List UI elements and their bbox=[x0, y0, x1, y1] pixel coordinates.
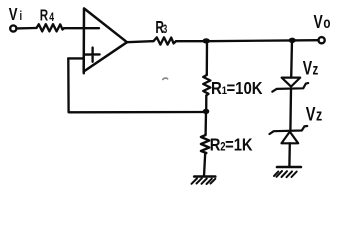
svg-text:R: R bbox=[40, 7, 48, 24]
resistor R3 bbox=[152, 37, 176, 44]
label Vz (D1) bbox=[303, 57, 318, 79]
wire op-amp output to R3 bbox=[127, 41, 152, 42]
op-amp U1 bbox=[84, 8, 127, 73]
svg-text:V: V bbox=[9, 5, 18, 24]
zener D2 (cathode bar top, anode bottom) bbox=[270, 126, 308, 143]
label R4 bbox=[40, 7, 55, 25]
label R3 bbox=[155, 18, 167, 38]
svg-text:4: 4 bbox=[49, 12, 54, 24]
wire node C to R2 bbox=[204, 112, 207, 134]
node A junction dot bbox=[203, 38, 210, 43]
terminal Vo bbox=[319, 37, 325, 43]
svg-text:z: z bbox=[312, 60, 318, 78]
resistor R4 bbox=[35, 24, 64, 31]
wire node A to node B bbox=[207, 39, 292, 42]
wire zener D1 to zener D2 bbox=[289, 89, 292, 131]
wire non-inverting input stub bbox=[68, 57, 83, 59]
node B junction dot bbox=[289, 38, 296, 43]
svg-text:V: V bbox=[314, 12, 323, 32]
svg-text:z: z bbox=[316, 107, 322, 125]
wire feedback (down and right to node C) bbox=[68, 58, 206, 112]
wire R1 to node C bbox=[205, 96, 207, 113]
wire node B to terminal Vo bbox=[292, 39, 319, 42]
wire node A down to R1 bbox=[206, 41, 209, 74]
svg-text:R: R bbox=[210, 135, 221, 155]
zener D1 (anode top, cathode bar bottom) bbox=[272, 78, 308, 92]
svg-text:o: o bbox=[323, 15, 330, 32]
wire R4 to op-amp inverting input (forms minus sign inside) bbox=[64, 27, 99, 29]
wire node B down to zener D1 bbox=[290, 40, 293, 77]
label R1=10K bbox=[211, 79, 263, 98]
wire R3 to node A bbox=[176, 40, 207, 42]
svg-text:V: V bbox=[306, 102, 316, 125]
svg-text:3: 3 bbox=[163, 24, 168, 37]
resistor R2 bbox=[201, 134, 209, 153]
node C junction dot bbox=[203, 109, 210, 114]
svg-text:i: i bbox=[19, 10, 22, 24]
ground (right) bbox=[274, 167, 301, 177]
op-amp plus sign bbox=[85, 48, 100, 62]
svg-text:=10K: =10K bbox=[226, 79, 262, 98]
stray faint mark bbox=[163, 78, 168, 79]
resistor R1 bbox=[203, 74, 210, 96]
svg-text:R: R bbox=[211, 79, 222, 98]
label Vz (D2) bbox=[306, 102, 322, 125]
wire zener D2 to ground bbox=[288, 143, 291, 167]
label Vi bbox=[9, 5, 22, 24]
svg-text:V: V bbox=[303, 57, 313, 79]
wire Vi to R4 bbox=[17, 27, 35, 30]
label Vo bbox=[314, 12, 331, 32]
ground (left) bbox=[192, 177, 216, 185]
label R2=1K bbox=[210, 135, 253, 155]
svg-text:=1K: =1K bbox=[225, 135, 253, 155]
terminal Vi bbox=[10, 25, 16, 31]
wire R2 to ground bbox=[204, 153, 205, 176]
